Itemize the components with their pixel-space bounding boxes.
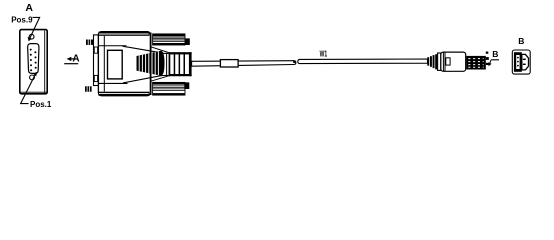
- hood shoulder line bottom: [151, 76, 169, 81]
- jack screw tip top (side view): [86, 40, 93, 45]
- grip cone (ribbed boot): [137, 48, 165, 78]
- body top ridge band: [98, 32, 149, 36]
- leader wire Pos.9: [30, 17, 40, 38]
- pin 5..1 left column: [30, 49, 32, 72]
- hood taper top line: [123, 46, 163, 53]
- body window: [108, 50, 123, 79]
- leader wire Pos.1: [21, 73, 36, 103]
- connector B jack opening: [514, 52, 522, 72]
- barrel ring lines: [442, 52, 444, 71]
- connector A flange (side view): [94, 35, 99, 86]
- D-sub insert outline: [28, 44, 39, 74]
- screw hole top: [29, 34, 34, 39]
- connector B boot ring: [438, 53, 441, 70]
- body front collar line: [103, 36, 105, 92]
- svg-text:Pos.9: Pos.9: [11, 16, 33, 25]
- connector A inner right edge line: [44, 31, 46, 93]
- pin 9..6 right column: [34, 51, 36, 68]
- connector B boot rib 1: [427, 57, 429, 65]
- arrowhead Pos.9: [28, 37, 32, 41]
- hood taper bottom line: [123, 75, 162, 83]
- wire W1 right segment: [298, 59, 428, 64]
- strain relief neck: [161, 53, 169, 75]
- plug latch tooth top: [486, 52, 489, 54]
- svg-text:B: B: [518, 36, 524, 46]
- barrel inset window: [446, 58, 450, 65]
- connector B latch keyway: [522, 54, 529, 70]
- arrowhead Pos.1: [33, 72, 37, 77]
- keyway contact dash top: [523, 59, 526, 60]
- connector A body (side view): [98, 32, 150, 96]
- connector B outer shell (face view): [512, 50, 530, 74]
- hood inner top line: [99, 45, 127, 47]
- body bottom ridge band: [98, 92, 149, 96]
- svg-text:B: B: [492, 49, 498, 59]
- svg-text:Pos.1: Pos.1: [30, 100, 52, 109]
- wire W1 left segment: [192, 61, 296, 66]
- ferrite sleeve on wire: [220, 60, 238, 67]
- flange boss top: [94, 47, 97, 53]
- flange boss bottom: [94, 75, 97, 81]
- view arrow B (direction arrow): [488, 49, 499, 66]
- connector B boot rib 3: [433, 55, 435, 68]
- hood shoulder line top: [151, 47, 169, 53]
- keyway contact dash bottom: [523, 64, 526, 65]
- jack screw tip bottom (side view): [85, 86, 92, 91]
- svg-text:W1: W1: [320, 49, 328, 59]
- plug tooth mid: [486, 57, 489, 60]
- strain relief ladder ribs: [169, 52, 192, 76]
- thumbscrew head top (knurled): [153, 34, 190, 45]
- svg-text:A: A: [25, 2, 33, 14]
- hood inner bottom line: [99, 82, 128, 84]
- connector B boot rib 2: [430, 56, 432, 67]
- screw hole bottom: [30, 75, 35, 80]
- thumbscrew head bottom (knurled): [153, 82, 190, 95]
- connector A inner bottom edge line: [21, 91, 47, 93]
- connector A outer shell (face view): [20, 30, 47, 94]
- view arrow A (direction arrow): [64, 53, 79, 64]
- connector B boot rib 4: [435, 54, 437, 69]
- svg-text:A: A: [72, 53, 79, 64]
- plug tooth low: [486, 63, 489, 65]
- wire break knob: [293, 60, 296, 63]
- connector B barrel: [441, 52, 466, 71]
- plug head (contacts): [466, 56, 486, 70]
